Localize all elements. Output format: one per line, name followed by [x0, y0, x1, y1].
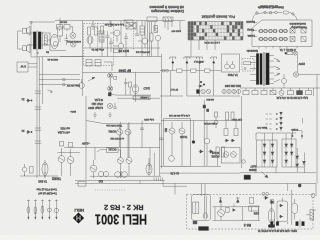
transformer T2 mains	[256, 52, 269, 86]
transistor QD2	[231, 152, 237, 158]
bracket top	[292, 131, 303, 137]
wire drops from baseline	[175, 184, 292, 225]
label block right black	[211, 151, 220, 159]
svg-text:Klang: Klang	[247, 28, 254, 32]
resistor R11	[88, 27, 91, 35]
resistor RT2	[114, 49, 120, 53]
label 2x	[21, 129, 25, 133]
extra pulleys	[269, 11, 294, 15]
resistor RH	[306, 88, 312, 95]
inner verticals	[205, 196, 207, 218]
svg-text:TA 7302: TA 7302	[227, 73, 238, 77]
resistor RM1	[224, 129, 228, 136]
svg-text:UKW 87,5: UKW 87,5	[193, 60, 204, 62]
diode DB1 down	[219, 197, 223, 204]
wire upper baseline y180.3	[75, 180, 165, 183]
capacitor C102	[108, 21, 112, 27]
trimmer P14	[47, 200, 51, 220]
pulley labels	[257, 6, 284, 10]
capacitor C22	[35, 141, 41, 143]
inner ellipse	[203, 213, 207, 219]
diode matrix box1 wires	[262, 140, 273, 167]
twin verticals right	[147, 22, 149, 57]
label GC301 pair	[108, 130, 116, 133]
ground g2	[108, 112, 112, 118]
label 1k vertical	[164, 128, 166, 132]
transistor Q18	[117, 124, 123, 148]
wire y168.5 bus	[160, 100, 240, 173]
wire row y56.5 main	[55, 56, 161, 58]
label trim rows	[36, 188, 57, 196]
wire lower double segment	[163, 180, 187, 186]
svg-text:SF126: SF126	[211, 151, 219, 155]
label RS2 black	[244, 223, 251, 227]
svg-text:2,5 Umdr. Seilrolle: 2,5 Umdr. Seilrolle	[259, 5, 278, 8]
transistor QT1	[114, 43, 124, 53]
diode d1b	[271, 144, 274, 147]
wire row y56.5	[60, 57, 112, 72]
switch rect K1	[290, 28, 295, 33]
amp label NF	[119, 69, 131, 73]
wire feeds above boxes	[256, 133, 296, 140]
wire long baseline y183.5	[75, 184, 316, 197]
HELI logo diamond	[73, 213, 84, 224]
dial cord pulley small 1	[256, 12, 259, 15]
svg-text:AF BF121 2n2: AF BF121 2n2	[135, 50, 150, 53]
resistor RC	[261, 88, 267, 95]
svg-text:220k: 220k	[253, 212, 259, 215]
diode box 1	[257, 140, 278, 167]
diode col right d3a	[296, 156, 299, 159]
svg-text:6,3V 0,3A: 6,3V 0,3A	[232, 118, 242, 121]
transistor Q17	[179, 122, 185, 140]
resistor R40	[177, 69, 183, 72]
resistor RB1	[226, 208, 230, 213]
switch box S2	[124, 20, 133, 26]
speaker LS2	[23, 44, 31, 53]
junction dot x37	[37, 52, 39, 54]
wire antenna bus y70.7	[160, 63, 221, 71]
transformer stubs	[250, 56, 274, 84]
lamp top right	[298, 184, 301, 187]
fuse dashed box	[242, 59, 254, 72]
switch rect K4	[301, 37, 306, 42]
svg-text:220V: 220V	[298, 62, 305, 66]
wire row y48	[84, 44, 160, 52]
dotted fragments	[95, 189, 126, 191]
chassis rounded box	[192, 195, 211, 221]
svg-text:U KM KL L TA: U KM KL L TA	[280, 48, 296, 52]
label speck mid2	[168, 114, 190, 116]
rectifier arrows	[274, 58, 280, 82]
diode col right d3b	[296, 164, 299, 167]
svg-text:SY200: SY200	[291, 128, 298, 130]
switch box S1	[126, 23, 136, 30]
resistor R101	[58, 27, 63, 42]
svg-text:HELI: HELI	[74, 208, 84, 212]
resistor RV3	[249, 206, 259, 211]
svg-text:Lautspr.: Lautspr.	[140, 96, 149, 99]
svg-text:+9V 0,25A: +9V 0,25A	[58, 131, 70, 135]
wire bus y88	[240, 87, 320, 89]
diode DC3	[270, 200, 275, 204]
cord extra tick labels	[259, 5, 278, 8]
wire y56.5 left extension	[31, 56, 55, 59]
svg-text:Bereich: Bereich	[246, 20, 255, 24]
pot P2	[98, 171, 108, 176]
resistor R46	[222, 147, 225, 157]
hatched rect RH2	[310, 210, 314, 221]
capacitor CM2	[159, 138, 163, 140]
diode D11	[209, 150, 214, 154]
label block 0B300	[248, 165, 256, 173]
svg-text:8Ω: 8Ω	[46, 50, 49, 52]
dial cord path	[252, 13, 297, 23]
diode in relay top	[279, 204, 283, 207]
pot pair B3	[279, 37, 287, 40]
wire bus y96	[160, 95, 240, 97]
svg-text:Di01 Di02 Di03: Di01 Di02 Di03	[224, 84, 241, 87]
transistor Q5	[138, 38, 148, 44]
fuse F1	[244, 62, 251, 70]
lamp cluster	[201, 89, 211, 93]
transistor Q12	[90, 160, 97, 178]
wire bus y172.8 right	[240, 167, 316, 173]
speck under table	[204, 41, 220, 44]
wire x150 area	[150, 148, 160, 171]
wire right edge vert	[242, 96, 303, 168]
resistor R33	[30, 167, 34, 174]
node labels left of box	[246, 20, 255, 24]
svg-text:Tn≈8 PTH ±2 Vss: Tn≈8 PTH ±2 Vss	[36, 188, 57, 192]
resistor R16	[129, 82, 132, 87]
resistor RT3	[150, 33, 153, 41]
transistor Q16	[169, 122, 175, 140]
diode DL1	[48, 90, 53, 93]
svg-text:47nF 1kΩ: 47nF 1kΩ	[92, 102, 103, 106]
diode DD2	[231, 139, 236, 142]
resistor R8	[57, 25, 63, 30]
svg-text:2x1N 60V: 2x1N 60V	[171, 29, 181, 31]
dashed enclosure box	[187, 195, 314, 230]
transistor Q7	[108, 78, 113, 91]
diode D4	[26, 99, 32, 103]
resistor R9	[64, 25, 70, 30]
comp chain x216	[214, 112, 218, 128]
dial cord pulley small 2	[264, 11, 267, 14]
resistor R15	[114, 76, 117, 79]
capacitor CT1	[106, 31, 110, 44]
wire right edge verticals	[314, 75, 318, 184]
diode d1f	[271, 160, 274, 163]
wire left column vertical	[31, 18, 60, 57]
wire leaders to box	[253, 23, 257, 37]
dark blob bl	[108, 93, 111, 97]
svg-text:0,1µ 4,7k 220 1k GL 47n: 0,1µ 4,7k 220 1k GL 47n 2,2k	[276, 96, 308, 99]
svg-text:4x SY170 2k2: 4x SY170 2k2	[110, 137, 124, 139]
trimmer P15	[54, 200, 59, 220]
transistor Q14	[126, 158, 132, 164]
svg-text:470µ 25V 1k: 470µ 25V 1k	[91, 48, 104, 50]
wire stage link	[50, 27, 73, 51]
table caption	[202, 15, 235, 19]
wire center vertical x82	[82, 21, 84, 97]
trimmer P11	[27, 200, 30, 220]
wire verticals topleft	[102, 21, 158, 57]
trimmer P12	[34, 200, 37, 220]
switch RD	[270, 88, 276, 95]
svg-text:4,7k 0,1µ 560 SF 126: 4,7k 0,1µ 560 SF 126	[168, 114, 190, 116]
svg-text:TA150: TA150	[179, 135, 187, 139]
label speck mid4	[203, 122, 217, 125]
capacitor C19	[35, 91, 41, 93]
dipole symbol 3	[197, 57, 203, 64]
transistor Q10	[58, 148, 65, 176]
fuse F2 top	[285, 52, 293, 55]
resistor RA	[243, 88, 249, 95]
paper noise overlay	[0, 0, 1, 1]
svg-text:1k 4,7k: 1k 4,7k	[170, 172, 179, 176]
diode d1e	[263, 160, 266, 163]
electrolytic C40	[282, 79, 287, 84]
label under RV3	[253, 212, 259, 215]
diode d1a	[263, 144, 266, 147]
right comp circle	[311, 194, 315, 198]
table switch matrix	[188, 22, 243, 41]
transistor Q2	[53, 42, 57, 46]
svg-text:250V~: 250V~	[69, 110, 76, 112]
dark marks mixer low	[203, 105, 209, 112]
svg-text:2xLD: 2xLD	[143, 86, 150, 90]
resistor R41	[191, 69, 197, 72]
tube V1	[87, 36, 93, 44]
svg-text:220V~ 6,3V 0,3A Si 0,1A 2: 220V~ 6,3V 0,3A Si 0,1A 2x GY111 TA	[257, 229, 297, 232]
wire x120 vertical	[121, 122, 130, 157]
transistor QD1	[223, 152, 229, 158]
speaker LS1	[23, 26, 31, 35]
capacitor CM1	[140, 128, 144, 130]
label speck mid3	[105, 124, 122, 127]
capacitor C14	[113, 103, 117, 109]
box label	[289, 22, 306, 26]
hatched rect HR1	[154, 26, 158, 33]
svg-text:0,25A GC121: 0,25A GC121	[203, 122, 217, 125]
driver box right	[221, 148, 240, 163]
svg-text:Pos. Bereich gedrückt: Pos. Bereich gedrückt	[202, 15, 235, 19]
trimmer P13	[41, 200, 44, 220]
wire speaker join	[18, 31, 23, 49]
lamp RE	[279, 88, 284, 95]
wire mid verticals	[111, 21, 168, 39]
wire bus y120.5	[86, 121, 242, 124]
diode d2a	[285, 144, 288, 147]
svg-text:Lautst.: Lautst.	[247, 34, 255, 38]
tick marks x31 top	[30, 22, 33, 24]
capacitor C9	[135, 30, 139, 36]
svg-text:GC301 SF121: GC301 SF121	[66, 40, 81, 42]
diode DB2 down	[236, 197, 240, 204]
diode D10	[199, 150, 204, 154]
svg-text:GC121: GC121	[108, 148, 117, 152]
wire label bus	[83, 73, 161, 85]
wire bracket link	[301, 137, 303, 140]
circle in box bottom	[169, 156, 175, 162]
svg-text:nur RS2: nur RS2	[60, 127, 70, 131]
box bottom ticks	[259, 47, 297, 49]
wire top horizontal bus	[55, 20, 185, 22]
diode d1d	[271, 152, 274, 155]
capacitor C21	[35, 128, 41, 130]
socket circles left	[162, 69, 168, 72]
capacitor C12	[124, 78, 128, 95]
pot pair A1	[258, 29, 267, 32]
capacitor C8	[109, 38, 113, 48]
resistor R42	[205, 69, 211, 72]
tuner circles	[225, 61, 235, 69]
svg-text:TA 26 100k 2,2n: TA 26 100k 2,2n	[105, 124, 122, 127]
electrolytic CL1	[63, 78, 66, 86]
pot pair B2	[269, 37, 277, 40]
label TA3 black	[52, 176, 61, 180]
legend arrows	[280, 112, 283, 131]
IF can box dashed	[84, 24, 114, 66]
wire v297	[297, 55, 299, 72]
lamp H4	[293, 72, 298, 77]
vertical rect pair right	[226, 112, 235, 120]
dial cord pulley 3	[275, 11, 278, 14]
switch rect K3	[301, 28, 306, 33]
svg-text:GD170 4Ω: GD170 4Ω	[47, 58, 58, 60]
transistor Q6	[108, 73, 113, 79]
circle QT2	[155, 35, 160, 48]
black base rect	[199, 227, 209, 231]
electrolytic C30	[204, 134, 210, 148]
coil L2	[99, 31, 104, 42]
transistor Q11	[67, 149, 74, 176]
resistor RF	[288, 88, 294, 95]
resistor R12	[95, 27, 98, 35]
label speck mid1	[66, 84, 80, 86]
speck topright1	[171, 29, 181, 31]
svg-text:GC301: GC301	[211, 155, 220, 159]
wire left long vertical B	[42, 57, 44, 104]
capacitor CT2	[124, 33, 128, 43]
wire diode col verticals	[296, 148, 304, 173]
junction blob	[192, 141, 195, 144]
resistor RB	[252, 88, 258, 95]
dial cord drum	[283, 11, 289, 14]
label small above baseline	[98, 180, 103, 183]
wire y147.5	[64, 148, 150, 161]
tuner label black	[227, 73, 238, 77]
resistor R7 vertical hatched	[44, 35, 47, 45]
capacitor C101	[91, 21, 95, 31]
svg-text:RS 2: RS 2	[244, 223, 251, 227]
svg-text:0,1µ 6,8k 120p 3,3k: 0,1µ 6,8k 120p 3,3k	[104, 23, 124, 25]
dashed vertical osc	[98, 23, 134, 53]
dipole symbol 2	[184, 57, 190, 64]
text speck row3	[91, 48, 104, 50]
tube V11	[268, 204, 274, 224]
electrolytic C13	[79, 79, 85, 88]
label TA150 dark	[179, 135, 187, 139]
diode DB3	[232, 209, 235, 212]
pot pair A2	[269, 29, 277, 32]
label box mid	[107, 148, 119, 153]
svg-text:1kΩ: 1kΩ	[164, 128, 166, 132]
extra speck labels batch2	[47, 58, 58, 60]
diode in relay bottom	[279, 215, 283, 218]
label Netztrafo	[246, 49, 258, 53]
svg-text:0,22µF 250V: 0,22µF 250V	[88, 106, 103, 110]
wire mid links	[90, 124, 161, 176]
electrolytic left small	[242, 160, 246, 164]
wire verticals mid	[86, 96, 236, 180]
svg-text:ZF 10,7: ZF 10,7	[170, 88, 178, 90]
legend rows	[266, 114, 272, 129]
capsule capacitor	[292, 203, 298, 213]
speck 302	[60, 21, 67, 23]
label ac symbol	[82, 142, 90, 146]
short verticals 160-180	[165, 21, 180, 31]
wire q stage	[46, 33, 51, 51]
label 220V	[298, 62, 305, 66]
svg-text:GC301: GC301	[108, 130, 116, 133]
power box 3W	[17, 62, 37, 72]
diode d2e	[285, 160, 288, 163]
black rect label	[244, 175, 251, 180]
label box bottom	[133, 96, 150, 100]
label MTX black	[118, 49, 129, 53]
svg-text:H: H	[76, 213, 81, 220]
pot pair B1	[258, 37, 267, 40]
diode box 2	[282, 139, 296, 167]
resistor R30	[60, 142, 64, 147]
text speck row1	[104, 23, 124, 25]
tube V2	[42, 160, 48, 178]
connector labels	[224, 84, 241, 87]
wire pot row lines	[258, 31, 288, 39]
svg-text:Verkupplung: Verkupplung	[291, 25, 307, 29]
svg-text:B250 C75: B250 C75	[256, 126, 267, 128]
DIN plug left	[271, 220, 279, 228]
rect RC1	[270, 200, 273, 204]
dipole symbol 4	[211, 57, 217, 64]
resistor RM2	[234, 129, 238, 136]
box label 2	[291, 25, 307, 29]
capacitor C5	[65, 34, 68, 45]
svg-text:0B300: 0B300	[248, 168, 256, 172]
diode D5	[26, 130, 32, 134]
transistor Q3	[70, 33, 76, 39]
wires bottom right misc	[282, 198, 316, 224]
pot pair A3	[279, 29, 287, 32]
diode d1c	[263, 152, 266, 155]
note text block top	[149, 5, 184, 13]
transistor Q13	[118, 158, 124, 164]
resistor R103	[163, 17, 173, 22]
label box text	[108, 148, 117, 152]
DIN plug right	[296, 220, 305, 228]
wire table drops	[185, 40, 215, 57]
tube V3	[133, 85, 139, 102]
electrolytic C25	[22, 164, 27, 176]
resistor R45	[216, 147, 219, 157]
tube base blob	[268, 225, 274, 228]
svg-text:Netztrafo: Netztrafo	[246, 49, 258, 53]
label +9V block	[58, 127, 70, 135]
keyboard unit box	[252, 20, 312, 47]
